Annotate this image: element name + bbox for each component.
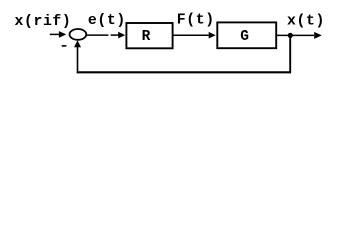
wire output from block G <box>277 32 322 39</box>
svg-text:e(t): e(t) <box>88 13 126 29</box>
node junction dot on output wire <box>288 33 293 38</box>
wire block R to block G <box>173 32 216 39</box>
wire summing junction to block R <box>87 32 126 39</box>
wire feedback up into summing junction <box>74 40 81 73</box>
wire feedback bottom horizontal <box>77 71 291 73</box>
svg-text:G: G <box>240 29 249 45</box>
svg-text:x(t): x(t) <box>287 14 325 30</box>
block G <box>217 22 276 48</box>
wire feedback down from junction <box>289 35 291 71</box>
minus sign at summing junction <box>62 45 67 47</box>
svg-text:F(t): F(t) <box>177 13 215 29</box>
block R <box>126 23 172 48</box>
wire input arrow into summing junction <box>50 31 67 38</box>
summing junction S1 <box>70 29 87 40</box>
svg-text:R: R <box>142 29 151 45</box>
svg-text:x(rif): x(rif) <box>15 14 72 30</box>
